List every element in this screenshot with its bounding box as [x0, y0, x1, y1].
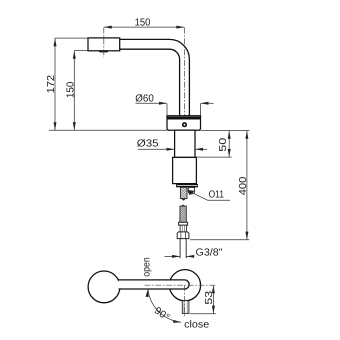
- svg-text:150: 150: [135, 18, 151, 29]
- braided hose top tip: [181, 204, 185, 206]
- dimension 50: [228, 131, 230, 157]
- extension line spout bottom: [74, 50, 88, 52]
- aerator outlet tick: [98, 51, 109, 53]
- svg-text:172: 172: [46, 75, 57, 94]
- hose nipple: [188, 187, 194, 193]
- handle lever bar: [119, 280, 190, 289]
- hose neck: [180, 225, 186, 232]
- supply pipe G3/8: [179, 239, 181, 259]
- base gasket band: [167, 117, 200, 120]
- svg-text:400: 400: [238, 176, 249, 195]
- threaded connector tube: [180, 187, 187, 198]
- svg-text:O11: O11: [209, 190, 225, 201]
- svg-text:50: 50: [218, 137, 229, 151]
- body base O60 box: [167, 116, 201, 130]
- handle knob circle: [88, 271, 120, 303]
- handle closed position stub: [182, 301, 189, 314]
- dimension G3/8: [165, 255, 181, 257]
- dimension O35: [138, 148, 175, 150]
- dimension 53: [212, 285, 214, 313]
- dimension 150 top: [104, 26, 185, 28]
- base screw: [182, 122, 187, 127]
- braided hose: [180, 206, 186, 222]
- hose collar: [179, 222, 188, 225]
- svg-text:53: 53: [204, 291, 215, 305]
- valve body circle: [169, 270, 200, 301]
- spout centerline: [103, 28, 105, 58]
- dimension 400: [246, 131, 248, 240]
- dimension 172: [54, 38, 56, 130]
- dimension O60: [136, 102, 168, 104]
- bottom flange plate: [176, 184, 198, 187]
- svg-text:150: 150: [65, 81, 76, 98]
- deck extension left: [49, 129, 167, 131]
- svg-text:Ø60: Ø60: [135, 94, 154, 105]
- riser centerline: [183, 28, 185, 130]
- spout tube and elbow: [120, 39, 190, 115]
- dimension 150 left: [73, 51, 75, 131]
- plan vertical centerline: [184, 285, 186, 316]
- spout aerator ring: [88, 38, 120, 51]
- deck extension right: [201, 130, 250, 132]
- mounting nut body: [173, 157, 197, 183]
- extension line spout top: [55, 37, 88, 39]
- rotation arc 90: [148, 289, 181, 322]
- svg-text:open: open: [142, 257, 153, 277]
- svg-text:Ø35: Ø35: [137, 139, 159, 150]
- svg-text:G3/8": G3/8": [196, 247, 223, 258]
- hex nut: [177, 232, 189, 239]
- svg-text:close: close: [184, 320, 210, 331]
- leader O11: [189, 191, 207, 200]
- O35 shank cylinder: [175, 130, 195, 157]
- plan horizontal centerline: [145, 284, 217, 286]
